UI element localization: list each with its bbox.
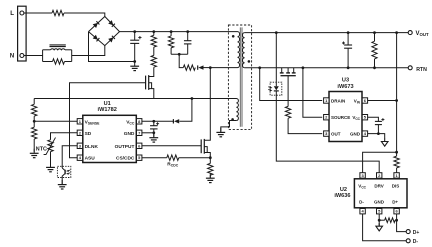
- filter block right link: [71, 50, 73, 62]
- wire clamp drop: [179, 54, 183, 67]
- svg-text:GND: GND: [350, 132, 361, 137]
- svg-text:DLNK: DLNK: [85, 144, 99, 150]
- depletion MOSFET Q1 source: [149, 89, 154, 99]
- wire N to filter block: [24, 55, 42, 57]
- gate resistor R8 body: [285, 106, 290, 118]
- node U2 GND: [378, 219, 381, 222]
- clamp capacitor C3: [184, 40, 192, 42]
- svg-text:GND: GND: [374, 200, 385, 205]
- DIS resistor R9 body: [394, 156, 399, 168]
- optocoupler U4 collector lead: [62, 168, 65, 171]
- wire to ground (U1 GND): [153, 133, 155, 137]
- node U2 VCC/DIS junction: [395, 151, 398, 154]
- AC input terminal block J1: [18, 6, 27, 61]
- svg-text:iW673: iW673: [337, 84, 353, 90]
- power MOSFET Q2 source: [204, 153, 210, 158]
- divider resistor R3 body: [32, 104, 37, 116]
- clamp resistor R7 body: [183, 65, 195, 70]
- terminal D+: [406, 230, 410, 234]
- wire RTN rail secondary bottom: [245, 67, 408, 69]
- node SR drain: [258, 66, 261, 69]
- clamp resistor R6 body: [168, 36, 173, 48]
- wire R2 to depletion FET drain: [149, 67, 154, 76]
- svg-text:VOUT: VOUT: [416, 31, 429, 37]
- optocoupler U4 LED: [274, 86, 279, 90]
- wire opto LED to DRV: [276, 91, 379, 175]
- node C4 bottom: [377, 132, 380, 135]
- svg-text:L: L: [10, 10, 14, 17]
- svg-text:SOURCE: SOURCE: [331, 115, 350, 120]
- op-amp U3 iW673 body: [329, 92, 362, 142]
- node opto feed: [275, 31, 278, 34]
- node bulk cap bottom: [133, 60, 136, 63]
- thermistor NTC body: [48, 140, 53, 152]
- wire VOUT to opto LED: [275, 33, 277, 87]
- SR MOSFET Q3 body stub: [287, 68, 289, 73]
- wire C4 to GND line: [377, 125, 379, 134]
- wire between startup resistors: [153, 47, 155, 55]
- svg-text:D-: D-: [359, 200, 364, 205]
- transformer T1 shield box: [228, 25, 251, 129]
- node Q2 source: [209, 156, 212, 159]
- wire Q1 gate to ASU: [70, 83, 146, 158]
- preload resistor R11 leads: [374, 33, 376, 42]
- U2 pin 1: [394, 173, 399, 178]
- ground (aux winding): [220, 128, 222, 133]
- U1 pin 4: [77, 155, 82, 160]
- node U3 VIN tap: [395, 99, 398, 102]
- inductor L1 core lines: [50, 44, 66, 46]
- svg-text:DIS: DIS: [392, 183, 400, 188]
- node bulk cap top: [133, 30, 136, 33]
- wire divider to VSENSE pin: [34, 120, 77, 122]
- node output cap bottom: [347, 66, 350, 69]
- wire RCDC to source node: [179, 157, 211, 159]
- svg-text:DRV: DRV: [374, 183, 383, 188]
- svg-text:U1: U1: [104, 101, 111, 107]
- wire R4 to ground: [33, 139, 35, 152]
- U1 pin 5: [137, 155, 142, 160]
- U3 pin 4: [362, 131, 367, 136]
- wire CS pin to RCDC: [142, 157, 167, 159]
- U1 pin 8: [137, 119, 142, 124]
- U3 pin 2: [324, 115, 329, 120]
- node D+ resistor: [395, 219, 398, 222]
- svg-text:D+: D+: [413, 230, 420, 236]
- optocoupler U4 LED arrows: [268, 87, 271, 91]
- bulk capacitor C1 polarity +: [138, 36, 141, 39]
- output capacitor C5 polarity +: [342, 42, 345, 45]
- node VSENSE divider junction: [33, 120, 36, 123]
- transformer T1 secondary phase dot: [248, 60, 251, 63]
- startup resistor R1 leads: [153, 32, 155, 36]
- node VCC feed tap: [191, 97, 194, 100]
- sense resistor R5 leads: [209, 158, 211, 164]
- ground (divider): [33, 149, 35, 154]
- bridge diode D3 (left-bottom edge): [93, 35, 98, 40]
- node preload top: [373, 31, 376, 34]
- ground (U3 GND): [384, 139, 386, 144]
- wire gate resistor to U3 OUT: [288, 118, 322, 133]
- bridge rectifier BR1 diamond: [89, 17, 120, 46]
- wire diode to aux rail: [179, 99, 192, 122]
- svg-text:D-: D-: [413, 239, 419, 245]
- wire HV bus: [120, 31, 238, 33]
- wire U2 GND down: [378, 214, 380, 226]
- svg-text:U2: U2: [340, 187, 347, 193]
- node VCC cap bottom: [152, 131, 155, 134]
- wire GND pin to node: [142, 132, 154, 134]
- VCC diode D5: [174, 119, 179, 123]
- U1 pin 1: [77, 119, 82, 124]
- wire SD pin to NTC: [51, 133, 78, 140]
- D+ resistor R10 body: [385, 218, 396, 223]
- node Q2 drain: [209, 66, 212, 69]
- wire U3 VIN to VOUT drop: [368, 100, 397, 102]
- SR MOSFET Q3 drain stub: [281, 68, 283, 73]
- U3 pin 5: [362, 115, 367, 120]
- node clamp join: [178, 53, 181, 56]
- terminal VOUT: [408, 31, 412, 35]
- clamp diode D6: [198, 65, 203, 69]
- U1 pin 3: [77, 143, 82, 148]
- node SR source: [302, 66, 305, 69]
- startup resistor R1 body: [151, 35, 156, 47]
- transformer T1 aux phase dot: [231, 118, 234, 121]
- resistor RCDC body: [167, 155, 179, 160]
- svg-text:GND: GND: [124, 131, 135, 137]
- wire junction to U2 VCC: [363, 152, 397, 175]
- wire NTC to ground: [50, 152, 52, 167]
- terminal RTN: [408, 66, 412, 70]
- node startup resistor top: [152, 30, 155, 33]
- terminal L: [20, 11, 24, 15]
- node output cap top: [347, 31, 350, 34]
- wire auxiliary rail: [34, 98, 236, 100]
- ground (U2 GND): [378, 223, 380, 228]
- U1 pin 2: [77, 130, 82, 135]
- clamp resistor R6 leads: [170, 32, 172, 36]
- power MOSFET Q2 drain: [204, 68, 210, 141]
- optocoupler U4 phototransistor box: [57, 166, 70, 177]
- U3 VCC capacitor C4 polarity +: [381, 118, 384, 121]
- op-amp U2 iW636 body: [354, 179, 407, 208]
- ground (U1 GND): [153, 133, 155, 138]
- ground (optocoupler): [61, 180, 63, 185]
- wire OUTPUT pin to Q2 gate: [142, 145, 201, 147]
- U2 pin 5: [377, 209, 382, 214]
- op-amp U1 iW1782 body: [83, 115, 137, 162]
- node VCC: [152, 120, 155, 123]
- wire VOUT drop: [396, 33, 398, 153]
- preload resistor R11 body: [372, 41, 377, 59]
- U3 VCC capacitor C4: [375, 120, 382, 122]
- optocoupler U4 LED box: [270, 82, 282, 95]
- wire drain to primary bottom: [210, 67, 237, 69]
- wire optocoupler to ground: [61, 178, 63, 185]
- bulk capacitor C1: [130, 39, 139, 41]
- svg-text:DRAIN: DRAIN: [331, 99, 345, 104]
- output capacitor C5: [344, 44, 352, 46]
- wire SR source to U3 SOURCE: [303, 68, 322, 117]
- optocoupler U4 light arrows: [67, 170, 70, 174]
- U3 pin 1: [324, 98, 329, 103]
- ground (bulk cap): [134, 62, 136, 67]
- svg-text:U3: U3: [342, 78, 349, 84]
- resistor R damping bottom branch lead: [43, 61, 53, 63]
- thermistor NTC arrow: [44, 138, 56, 155]
- transformer T1 secondary winding: [243, 33, 245, 68]
- filter block left link: [42, 50, 44, 62]
- DIS resistor R9 leads: [396, 152, 398, 156]
- wire filter to bridge bottom: [72, 46, 105, 56]
- svg-text:SD: SD: [85, 131, 92, 137]
- U2 pin 2: [377, 173, 382, 178]
- fuse resistor F1: [52, 10, 64, 15]
- terminal N: [20, 54, 24, 58]
- bridge diode D4 (bottom-right edge): [108, 37, 113, 42]
- U1 pin 6: [137, 143, 142, 148]
- node clamp cap top: [186, 30, 189, 33]
- SR MOSFET Q3 gate lead: [287, 76, 289, 107]
- wire U2 D+ to terminal: [397, 214, 406, 232]
- svg-text:iW1782: iW1782: [98, 107, 117, 113]
- U3 pin 3: [324, 131, 329, 136]
- node clamp resistor top: [170, 30, 173, 33]
- inductor L1 top branch lead: [43, 49, 51, 51]
- wire bridge negative to ground rail: [89, 32, 135, 62]
- transformer T1 core: [239, 27, 241, 126]
- VCC capacitor C2: [150, 125, 158, 127]
- U1 pin 7: [137, 130, 142, 135]
- optocoupler U4 phototransistor bar: [64, 170, 66, 175]
- depletion MOSFET Q1 gate bar: [145, 76, 147, 90]
- clamp capacitor C3 leads: [187, 32, 189, 41]
- divider resistor R4 body: [32, 127, 37, 139]
- VCC capacitor C2 leads: [153, 121, 155, 125]
- svg-text:D+: D+: [392, 200, 398, 205]
- ground (sense resistor): [209, 174, 211, 179]
- transformer T1 aux winding: [236, 99, 238, 121]
- wire U2 D- to terminal: [363, 214, 406, 241]
- node VIN feed: [395, 31, 398, 34]
- sense resistor R5 body: [208, 163, 213, 175]
- output capacitor C5 leads: [347, 33, 349, 45]
- SR MOSFET Q3 gate bar: [281, 75, 296, 77]
- node preload bottom: [373, 66, 376, 69]
- U2 pin 4: [360, 209, 365, 214]
- U2 pin 6: [394, 209, 399, 214]
- U3 pin 6: [362, 98, 367, 103]
- depletion MOSFET Q1 channel bar: [148, 75, 150, 90]
- svg-text:CS/CDC: CS/CDC: [116, 156, 135, 162]
- wire aux winding to ground: [221, 121, 237, 132]
- power MOSFET Q2 channel bar: [203, 139, 205, 154]
- svg-text:N: N: [10, 53, 15, 60]
- wire clamp join: [171, 53, 188, 55]
- svg-text:OUT: OUT: [331, 132, 341, 137]
- SR MOSFET Q3 source stub: [293, 68, 295, 73]
- svg-text:RTN: RTN: [416, 67, 427, 73]
- wire L to fuse: [24, 12, 52, 14]
- wire DLNK pin to optocoupler: [62, 146, 77, 168]
- power MOSFET Q2 mid tap: [204, 147, 207, 153]
- bulk capacitor C1 leads: [134, 32, 136, 41]
- inductor L1 winding: [51, 49, 66, 50]
- VCC capacitor C2 polarity +: [156, 122, 159, 125]
- wire U3 GND to ground: [368, 134, 385, 139]
- U2 pin 3: [360, 173, 365, 178]
- svg-text:iW636: iW636: [334, 193, 350, 199]
- wire VCC pin to node: [142, 120, 173, 122]
- bridge diode D2 (top-right edge): [108, 20, 113, 25]
- terminal D-: [406, 239, 410, 243]
- depletion MOSFET Q1 mid tap: [149, 83, 152, 89]
- svg-text:ASU: ASU: [85, 156, 96, 162]
- startup resistor R2 body: [151, 55, 156, 67]
- power MOSFET Q2 gate bar: [200, 139, 202, 153]
- resistor R damping body: [53, 59, 65, 64]
- wire VOUT rail: [245, 32, 408, 34]
- svg-text:NTC: NTC: [36, 146, 47, 152]
- transformer T1 primary winding: [238, 32, 240, 68]
- bridge diode D1 (left-top edge): [93, 23, 98, 28]
- transformer T1 primary phase dot: [232, 35, 235, 38]
- optocoupler U4 emitter lead: [62, 174, 65, 178]
- divider resistor R3 leads: [33, 99, 35, 105]
- wire U3 VCC to cap: [368, 117, 379, 121]
- svg-text:OUTPUT: OUTPUT: [115, 144, 135, 150]
- wire clamp diode to drain node: [204, 67, 211, 69]
- wire SR drain to U3 DRAIN: [260, 68, 323, 101]
- wire fuse to bridge top: [64, 13, 105, 17]
- ground (NTC): [50, 163, 52, 168]
- D+ resistor R10 leads: [379, 219, 385, 221]
